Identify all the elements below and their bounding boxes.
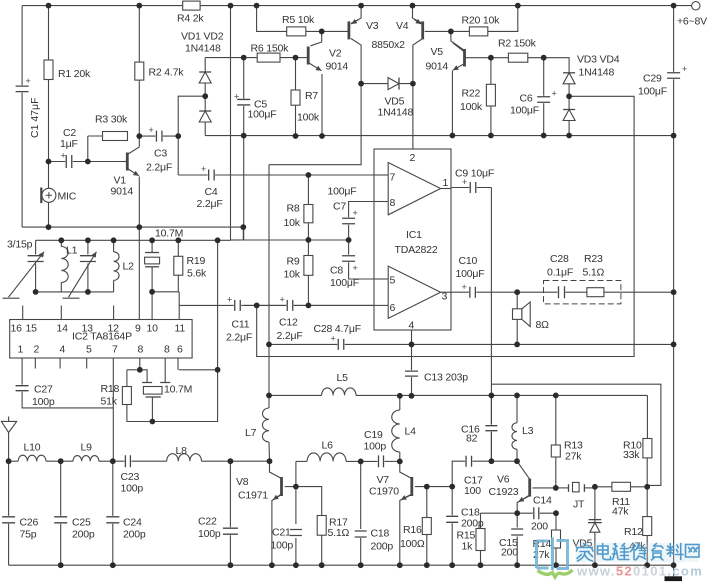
label C18 (b) <box>461 507 480 519</box>
svg-text:C9 10μF: C9 10μF <box>455 168 494 180</box>
label pin16 <box>11 323 23 335</box>
wire R14 column <box>555 513 557 530</box>
label R18 <box>101 383 120 395</box>
wire emitter node down <box>516 513 518 527</box>
svg-text:5: 5 <box>390 275 396 287</box>
svg-text:R12: R12 <box>624 526 643 538</box>
wire L2 bottom <box>113 280 115 292</box>
wire xtal2 plate lead b <box>164 358 166 383</box>
inductor L2 <box>114 252 119 281</box>
wire C3 line <box>139 135 178 137</box>
wire R14 bottom <box>555 548 557 565</box>
node pin7 line R8 <box>306 172 312 178</box>
svg-text:C21: C21 <box>272 527 291 539</box>
label 10.7M (bottom) <box>164 384 192 396</box>
label L1 <box>66 245 78 257</box>
inductor L1 <box>61 247 68 283</box>
label C6 <box>520 93 533 105</box>
wire C25 column <box>60 461 62 565</box>
label 1uF (C2) <box>60 138 78 150</box>
label C11 <box>232 319 250 331</box>
svg-text:1N4148: 1N4148 <box>185 43 221 55</box>
wire L7 bottom to V8 <box>268 442 271 461</box>
resistor R18 <box>122 387 131 405</box>
wire R13 column <box>555 395 557 445</box>
svg-text:6: 6 <box>390 302 396 314</box>
label 9014 (V2) <box>326 61 349 73</box>
wire pin9 column <box>138 227 140 319</box>
label 100ohm (R16) <box>400 538 425 550</box>
wire pin5 inside <box>374 278 388 280</box>
wire C28'/R23 branch <box>517 291 673 293</box>
label V7 <box>377 474 390 486</box>
svg-text:16: 16 <box>11 323 23 335</box>
node tank L1 <box>58 237 64 243</box>
node V7 base/R16 <box>424 484 430 490</box>
svg-text:2.2μF: 2.2μF <box>277 330 303 342</box>
node bottom C25 <box>58 562 64 568</box>
op-amp IC1b triangle <box>388 266 440 318</box>
svg-text:75p: 75p <box>20 529 37 541</box>
wire pin11 column <box>178 292 180 320</box>
trimmer capacitor CT2 plates <box>80 256 96 262</box>
node RF rail C16 <box>489 393 495 399</box>
label 10k (R9) <box>284 269 301 281</box>
wire left border / C1 branch <box>21 6 23 228</box>
svg-text:10k: 10k <box>284 269 301 281</box>
node bottom V7e <box>397 562 403 568</box>
wire C18b column <box>451 487 453 516</box>
wire xtal2 bottom lead <box>151 397 153 422</box>
node RF rail R13 <box>553 393 559 399</box>
wire y384 feedback line <box>491 384 661 485</box>
wire RF top rail seg1 <box>269 394 322 396</box>
wire C11-C12 node <box>244 304 374 306</box>
wire pin6 stub <box>177 358 179 370</box>
svg-text:+: + <box>353 208 358 218</box>
label C8 <box>330 265 343 277</box>
node C7/C8 <box>346 237 352 243</box>
svg-text:200p: 200p <box>461 518 484 530</box>
resistor R7 <box>291 90 300 105</box>
label 47k (R12) <box>629 541 646 553</box>
wire pin12 nc stub <box>113 306 115 320</box>
svg-text:2.2μF: 2.2μF <box>146 162 172 174</box>
trimmer capacitor CT1 foot <box>3 297 20 299</box>
wire R6 line <box>244 57 296 59</box>
transistor V4 base bar <box>421 21 424 39</box>
svg-text:L8: L8 <box>176 445 188 457</box>
ground <box>665 576 683 581</box>
transistor V1 base bar <box>126 153 129 171</box>
svg-text:7: 7 <box>390 172 396 184</box>
node xtal2/R18 bottom <box>150 419 156 425</box>
wire C9 down column <box>490 188 492 462</box>
wire L3 column top <box>516 395 518 422</box>
svg-text:+: + <box>149 125 154 135</box>
label R22 <box>462 88 481 100</box>
label 0.1uF <box>547 267 573 279</box>
label pin8 <box>390 197 396 209</box>
node mic rail end <box>240 224 246 230</box>
wire pin4 nc stub <box>59 358 61 369</box>
wire R19 bottom <box>177 275 179 292</box>
wire ground stub <box>673 565 675 576</box>
resistor R3 <box>103 132 128 141</box>
wire R15 column <box>480 513 482 528</box>
capacitor C19 <box>378 455 385 467</box>
resistor R4 <box>183 1 200 10</box>
label V6 <box>497 474 510 486</box>
wire IF low rail <box>231 239 244 241</box>
node IF rail V2e <box>319 133 325 139</box>
resistor R9 <box>304 256 313 276</box>
node audio A / pin4 <box>409 342 415 348</box>
label IC2 TA8164P <box>72 331 132 343</box>
resistor R20 <box>469 27 487 36</box>
node top rail / V4 <box>410 3 416 9</box>
svg-text:0.1μF: 0.1μF <box>547 267 573 279</box>
label pin5b <box>86 344 92 356</box>
svg-text:+: + <box>61 151 66 161</box>
svg-text:5.6k: 5.6k <box>187 268 207 280</box>
label pin9 <box>135 323 141 335</box>
resistor R19 <box>174 256 183 275</box>
label C15 <box>499 537 518 549</box>
wire VD5 link corner <box>269 84 361 165</box>
node tank CT2 <box>85 237 91 243</box>
svg-text:C25: C25 <box>72 517 91 529</box>
svg-text:C1970: C1970 <box>369 486 399 498</box>
wire bottom rail <box>9 564 674 566</box>
node top rail / R20 <box>515 3 521 9</box>
wire C8 to pin5 <box>349 262 374 280</box>
wire R8-R9 link <box>307 223 309 256</box>
wire R15 bottom <box>480 551 482 566</box>
svg-text:R6 150k: R6 150k <box>251 43 290 55</box>
svg-text:+: + <box>331 334 336 344</box>
svg-text:9014: 9014 <box>426 61 449 73</box>
IC IC2 TA8164P box <box>10 320 192 359</box>
label 2.2uF (C11) <box>226 332 252 344</box>
capacitor C11 <box>227 295 241 311</box>
node C11/C12 <box>254 303 260 309</box>
resistor R5 <box>287 27 306 36</box>
node top rail / R1 <box>46 3 52 9</box>
wire V8 collector <box>270 461 282 478</box>
inductor L5 <box>322 388 356 395</box>
svg-text:100k: 100k <box>297 112 320 124</box>
label 27k (R14) <box>533 549 550 561</box>
transistor V7 emitter arrow <box>401 494 412 500</box>
svg-text:C1923: C1923 <box>489 486 519 498</box>
svg-text:C26: C26 <box>20 517 39 529</box>
svg-text:C3: C3 <box>154 148 167 160</box>
wire V7 base lead <box>415 486 452 488</box>
svg-text:100: 100 <box>464 485 481 497</box>
label R16 <box>403 524 422 536</box>
wire IF mid rail <box>205 135 673 137</box>
node C3/VD/C4 <box>175 133 181 139</box>
wire C13 bottom <box>411 376 413 395</box>
watermark url www.520101.com <box>576 564 703 579</box>
capacitor C1 <box>16 76 31 93</box>
label C1923 <box>489 486 519 498</box>
svg-text:200p: 200p <box>371 541 394 553</box>
label pin4 <box>409 320 415 332</box>
wire V3 collector to VD5 <box>351 39 361 84</box>
node V5 base/R22 <box>488 55 494 61</box>
wire pin16 nc stub <box>22 306 24 320</box>
wire C28b branch <box>268 165 270 345</box>
label C28 0.1uF <box>550 253 569 265</box>
trimmer capacitor CT1 arrow <box>9 252 45 297</box>
label 100uF (C10) <box>456 268 485 280</box>
svg-text:R16: R16 <box>403 524 422 536</box>
wire C18a bottom <box>360 538 362 565</box>
wire C6 column <box>543 58 545 136</box>
node V4 base/R20/V5 <box>448 29 454 35</box>
svg-text:L4: L4 <box>405 426 417 438</box>
node RF rail L4 <box>397 393 403 399</box>
wire trimmer1 bottom <box>35 264 37 292</box>
wire antenna lead <box>8 433 10 462</box>
svg-text:8850x2: 8850x2 <box>372 39 406 51</box>
label pin6b <box>177 344 183 356</box>
svg-text:R9: R9 <box>287 256 300 268</box>
label 2.2uF (C12) <box>277 330 303 342</box>
resistor R10 <box>643 439 652 458</box>
node bottom C24 <box>110 562 116 568</box>
label 200p (C25) <box>72 529 95 541</box>
label pin11 <box>175 323 186 335</box>
svg-text:1k: 1k <box>462 541 474 553</box>
label 1N4148 (VD1/VD2) <box>185 43 221 55</box>
label C17 <box>464 475 483 487</box>
wire R19 column top <box>177 240 179 256</box>
node C3 left <box>136 133 142 139</box>
capacitor C5 <box>234 92 250 106</box>
node bottom C18b <box>449 562 455 568</box>
svg-text:L5: L5 <box>337 372 349 384</box>
wire R18 bottom corner <box>127 405 152 422</box>
wire R2b line <box>491 57 544 59</box>
wire trimmer1 column <box>35 240 37 254</box>
wire V8 base column up <box>295 461 297 524</box>
wire C18a column <box>360 461 362 529</box>
node R3/C2 <box>85 159 91 165</box>
wire R9 bottom <box>307 275 309 305</box>
label C18 (a) <box>371 528 390 540</box>
node top rail / R5 <box>254 3 260 9</box>
diode VD3 <box>563 73 575 84</box>
capacitor C28 <box>331 334 345 350</box>
label C3 <box>154 148 167 160</box>
label C22 <box>198 516 217 528</box>
wire pin8a stub <box>139 358 141 370</box>
label 8850x2 <box>372 39 406 51</box>
wire pin2 nc stub <box>34 358 36 369</box>
wire pin3 out / C10 <box>451 291 517 293</box>
label L8 <box>176 445 188 457</box>
svg-text:L2: L2 <box>123 261 135 273</box>
node bottom R12 <box>644 562 650 568</box>
wire C29 column <box>673 6 675 566</box>
resistor R22 <box>486 84 495 106</box>
label R14 <box>533 538 552 550</box>
microphone MIC <box>41 188 56 204</box>
label 75p (C26) <box>20 529 37 541</box>
node RF rail L5 start <box>266 393 272 399</box>
wire C24 column <box>112 461 114 565</box>
svg-text:VD3 VD4: VD3 VD4 <box>577 54 620 66</box>
capacitor C16 <box>485 425 497 432</box>
svg-text:9: 9 <box>135 323 141 335</box>
svg-text:R2 4.7k: R2 4.7k <box>149 67 185 79</box>
op-amp IC1a triangle <box>388 163 440 215</box>
svg-text:C4: C4 <box>205 186 218 198</box>
node bottom R17 <box>319 562 325 568</box>
label 51k (R18) <box>101 396 118 408</box>
label V8 <box>236 476 249 488</box>
label 9014 (V5) <box>426 61 449 73</box>
label R7 <box>305 90 318 102</box>
label 200 (C15) <box>501 547 518 559</box>
diode VD2 <box>199 111 211 122</box>
transistor V3 emitter arrow (PNP) <box>351 19 358 24</box>
wire trimmer2 column <box>87 240 89 254</box>
wire C5 column <box>243 58 245 136</box>
wire V2 collector <box>310 31 321 45</box>
wire mic bottom rail <box>22 226 243 228</box>
svg-text:100μF: 100μF <box>638 86 667 98</box>
wire C18b bottom <box>451 523 453 566</box>
label C1 47uF (vertical) <box>29 98 41 138</box>
svg-text:7: 7 <box>112 344 118 356</box>
wire pin8 inside <box>374 201 388 203</box>
wire R3 left drop <box>87 136 89 162</box>
node L9/C23 <box>110 458 116 464</box>
label C13 203p <box>424 372 468 384</box>
svg-text:3/15p: 3/15p <box>7 239 33 251</box>
node C2 left <box>46 159 52 165</box>
wire pin1 inside <box>441 188 451 190</box>
label V3 <box>366 20 379 32</box>
svg-text:+: + <box>280 295 285 305</box>
inductor L7 <box>262 408 269 442</box>
label 10.7M (top) <box>155 228 183 240</box>
node IF rail C6 <box>541 133 547 139</box>
wire VD5b column <box>594 487 596 565</box>
label V5 <box>431 46 444 58</box>
label C1970 <box>369 486 399 498</box>
inductor L10 <box>18 455 46 461</box>
node IF rail R22 <box>488 133 494 139</box>
transistor V8 base bar <box>280 477 283 496</box>
diode VD1 <box>199 72 211 83</box>
label 2.2uF (C3) <box>146 162 172 174</box>
node audio A / speaker <box>514 342 520 348</box>
wire V3 emitter to rail <box>351 6 361 24</box>
label C12 <box>279 317 298 329</box>
svg-text:R2 150k: R2 150k <box>498 38 537 50</box>
label 100p (C21) <box>271 540 294 552</box>
label R11 <box>612 496 630 508</box>
wire RF line2 <box>46 460 73 462</box>
wire L6 to C19 <box>346 460 378 462</box>
label +6~8V <box>677 16 707 28</box>
trimmer capacitor CT1 plates <box>28 256 44 262</box>
svg-text:IC1: IC1 <box>406 229 422 241</box>
label 2.2uF (C4) <box>197 198 223 210</box>
capacitor C26 <box>2 516 15 524</box>
wire C22 column <box>229 461 231 565</box>
transistor V2 emitter arrow <box>308 63 321 71</box>
svg-text:C11: C11 <box>232 319 250 331</box>
wire pin6 inside <box>374 304 388 306</box>
capacitor C27 <box>16 385 29 392</box>
svg-text:TDA2822: TDA2822 <box>395 244 438 256</box>
svg-text:100p: 100p <box>32 396 55 408</box>
wire R1/MIC column <box>48 6 50 228</box>
node top rail / R2 <box>136 3 142 9</box>
node audio A / C29 <box>671 342 677 348</box>
wire R5 feed from top rail <box>257 6 322 32</box>
label C19 <box>364 429 383 441</box>
node R5/V2/V3 <box>319 29 325 35</box>
node JT/VD5b/R11 <box>592 484 598 490</box>
label C2 <box>63 127 76 139</box>
wire R3 loop <box>88 135 123 137</box>
label 1N4148 (VD3/VD4) <box>579 67 615 79</box>
label 200p (C18a) <box>371 541 394 553</box>
wire C4 / pin7 line <box>178 174 374 176</box>
label pin6 <box>390 302 396 314</box>
wire pin8/C7 link <box>349 202 374 219</box>
label 100 (C17) <box>464 485 481 497</box>
label 200p (C24) <box>123 529 146 541</box>
node V7 base/C18b/C17 <box>449 484 455 490</box>
label VD1 VD2 <box>181 31 224 43</box>
inductor L6 <box>307 453 346 461</box>
transistor V3 base bar <box>347 21 350 39</box>
label 100uF (C6) <box>510 105 539 117</box>
node R6/C5/VD1 <box>241 55 247 61</box>
wire pin7 inside <box>374 174 388 176</box>
label 100p (C19) <box>364 441 387 453</box>
resistor R14 <box>552 530 561 548</box>
node bottom R15 <box>478 562 484 568</box>
label 8ohm <box>536 319 550 331</box>
svg-text:200p: 200p <box>72 529 95 541</box>
node R9/C12 bottom <box>306 303 312 309</box>
svg-text:10: 10 <box>147 323 159 335</box>
wire V4 base to R20 node <box>425 30 451 32</box>
capacitor C6 <box>537 89 557 104</box>
capacitor C15 <box>511 528 523 536</box>
wire V8 emitter <box>272 495 282 566</box>
svg-text:MIC: MIC <box>58 191 77 203</box>
svg-text:C10: C10 <box>459 255 478 267</box>
wire JT line <box>556 487 569 489</box>
node IF low rail pin6b <box>215 237 221 243</box>
wire audio line A <box>269 343 674 345</box>
svg-text:100p: 100p <box>198 528 221 540</box>
capacitor C13 <box>405 370 418 377</box>
wire RF line5 <box>202 460 270 462</box>
svg-text:100μF: 100μF <box>248 109 277 121</box>
node pin6b corner <box>215 367 221 373</box>
